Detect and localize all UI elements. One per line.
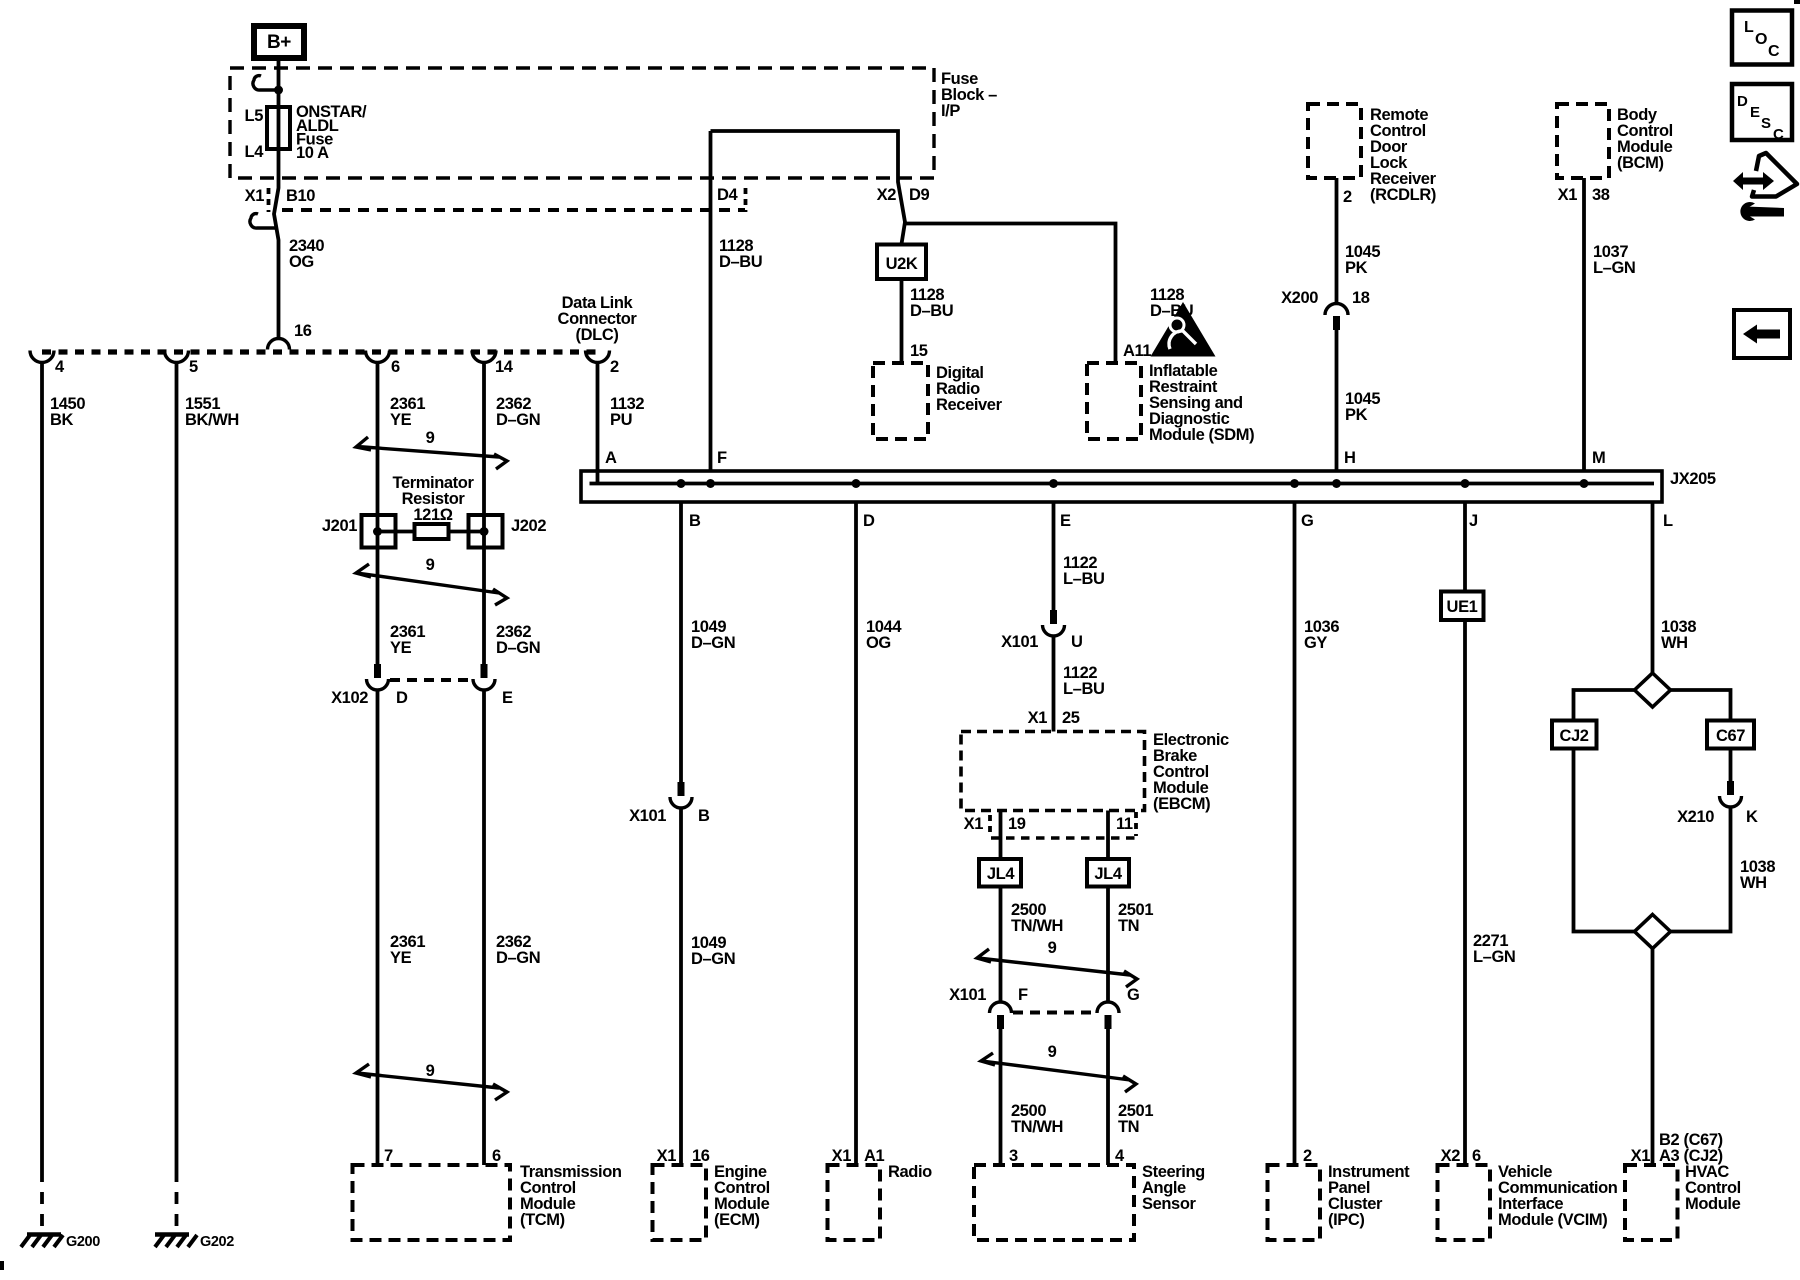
wire label 2501 TN (lower) xyxy=(1118,1102,1153,1136)
svg-text:CJ2: CJ2 xyxy=(1559,727,1588,745)
svg-text:G202: G202 xyxy=(200,1234,234,1250)
junction node at fuse feed xyxy=(274,86,283,95)
label Data Link Connector (DLC) xyxy=(558,294,638,344)
wire label 1049 D-GN (upper) xyxy=(691,618,735,652)
svg-text:16: 16 xyxy=(692,1147,710,1165)
option box CJ2 xyxy=(1552,721,1597,749)
SDM dashed box xyxy=(1087,363,1141,439)
connector X1 dashed boundary of EBCM xyxy=(991,836,1136,840)
svg-text:3: 3 xyxy=(1009,1147,1018,1165)
wire bus J to UE1 xyxy=(1463,502,1467,592)
wire label 2361 YE (lower) xyxy=(390,933,425,967)
junction node E xyxy=(1049,479,1058,488)
wire splitter to CJ2 xyxy=(1574,690,1635,721)
svg-text:J201: J201 xyxy=(322,517,357,535)
wire label 2271 L-GN xyxy=(1473,932,1515,966)
svg-text:TN/WH: TN/WH xyxy=(1011,917,1063,935)
wire 1045 PK from RCDLR to X200 xyxy=(1335,178,1339,304)
svg-text:F: F xyxy=(1018,986,1028,1004)
svg-text:D–BU: D–BU xyxy=(1150,302,1193,320)
IPC dashed box xyxy=(1268,1165,1321,1240)
svg-text:D–GN: D–GN xyxy=(691,634,735,652)
svg-text:X101: X101 xyxy=(949,986,986,1004)
svg-text:Sensor: Sensor xyxy=(1142,1195,1197,1213)
svg-text:(BCM): (BCM) xyxy=(1617,154,1664,172)
svg-text:16: 16 xyxy=(294,322,312,340)
DLC pin 5 cup xyxy=(165,351,189,363)
svg-text:YE: YE xyxy=(390,639,412,657)
wire 1045 PK from X200 to bus H xyxy=(1335,330,1339,471)
wire label 1037 L-GN xyxy=(1593,243,1635,277)
svg-text:C: C xyxy=(1773,126,1784,143)
wire label 2362 D-GN (middle) xyxy=(496,623,540,657)
twisted pair symbol 9 (above TCM) xyxy=(356,1062,507,1100)
connector X1 pins B2/A3 labels xyxy=(1631,1131,1723,1165)
junction node G xyxy=(1290,479,1299,488)
wire label 1044 OG xyxy=(866,618,902,652)
svg-text:J: J xyxy=(1469,512,1478,530)
svg-text:5: 5 xyxy=(189,358,198,376)
svg-text:(ECM): (ECM) xyxy=(714,1211,760,1229)
svg-text:D–BU: D–BU xyxy=(719,253,762,271)
twisted pair symbol 9 (above X101) xyxy=(977,939,1137,987)
svg-text:GY: GY xyxy=(1304,634,1327,652)
wire 2361 YE X102 to TCM pin7 xyxy=(376,690,380,1165)
wire 2501 TN X101 to SAS pin4 xyxy=(1106,1029,1110,1165)
wire label 2501 TN (upper) xyxy=(1118,901,1153,935)
svg-text:6: 6 xyxy=(391,358,400,376)
junction node F xyxy=(706,479,715,488)
option box JL4 (right) xyxy=(1087,859,1129,887)
junction node J xyxy=(1461,479,1470,488)
svg-text:YE: YE xyxy=(390,949,412,967)
svg-text:4: 4 xyxy=(1115,1147,1125,1165)
svg-text:G: G xyxy=(1127,986,1139,1004)
svg-text:U: U xyxy=(1071,633,1083,651)
connector X1 dashed boundary line xyxy=(282,208,745,212)
wire label 1122 L-BU (upper) xyxy=(1063,554,1105,588)
wire 2500 TN/WH JL4 to X101 F xyxy=(999,887,1003,1003)
svg-text:18: 18 xyxy=(1352,289,1370,307)
svg-text:J202: J202 xyxy=(511,517,546,535)
svg-text:X1: X1 xyxy=(245,187,265,205)
label Electronic Brake Control Module (EBCM) xyxy=(1153,731,1229,813)
svg-text:OG: OG xyxy=(289,253,314,271)
wire 2271 L-GN UE1 to VCIM xyxy=(1463,620,1467,1165)
label Inflatable Restraint Sensing and Diagnostic Module (SDM) xyxy=(1149,362,1254,444)
wire splitter to HVAC xyxy=(1651,949,1655,1166)
svg-text:X1: X1 xyxy=(1631,1147,1651,1165)
svg-text:Module: Module xyxy=(1685,1195,1741,1213)
TCM dashed box xyxy=(353,1165,511,1240)
svg-text:D: D xyxy=(863,512,875,530)
svg-text:B: B xyxy=(689,512,701,530)
wire label 2361 YE (upper) xyxy=(390,395,425,429)
svg-text:D–GN: D–GN xyxy=(496,411,540,429)
svg-text:38: 38 xyxy=(1592,186,1610,204)
svg-text:7: 7 xyxy=(384,1147,393,1165)
svg-text:G: G xyxy=(1301,512,1313,530)
label Vehicle Communication Interface Module (VCIM) xyxy=(1498,1163,1618,1229)
radio dashed box xyxy=(828,1165,881,1240)
svg-text:K: K xyxy=(1746,808,1758,826)
svg-text:L: L xyxy=(1663,512,1673,530)
DLC pin 16 dome xyxy=(268,339,290,350)
svg-text:2: 2 xyxy=(1303,1147,1312,1165)
connector X1 pin A1 labels xyxy=(832,1147,885,1165)
wire label 1038 WH (upper) xyxy=(1661,618,1696,652)
svg-text:X101: X101 xyxy=(629,807,666,825)
wire 1036 GY bus G to IPC xyxy=(1293,502,1297,1165)
wire 1044 OG bus D to radio xyxy=(854,502,858,1165)
in-line connector X101 cavity U xyxy=(1001,610,1082,651)
ground G202 xyxy=(155,1234,234,1250)
wire 2500 TN/WH X101 to SAS pin3 xyxy=(999,1029,1003,1165)
svg-text:JL4: JL4 xyxy=(1094,865,1122,883)
junction node D xyxy=(852,479,861,488)
wire 1551 BK/WH pin5 to G202 xyxy=(175,361,179,1170)
svg-text:PU: PU xyxy=(610,411,632,429)
svg-text:TN: TN xyxy=(1118,1118,1139,1136)
svg-text:15: 15 xyxy=(910,342,928,360)
svg-text:X2: X2 xyxy=(877,186,897,204)
splice pack J202 xyxy=(469,515,547,548)
in-line connector X102 cavity D xyxy=(367,664,389,690)
svg-text:(IPC): (IPC) xyxy=(1328,1211,1365,1229)
svg-text:WH: WH xyxy=(1740,874,1767,892)
splice pack J201 xyxy=(322,515,396,548)
option box C67 xyxy=(1707,721,1754,749)
svg-text:9: 9 xyxy=(426,556,435,574)
connector X102 dashed line xyxy=(390,678,472,682)
steering angle sensor dashed box xyxy=(974,1165,1134,1240)
svg-text:6: 6 xyxy=(1472,1147,1481,1165)
twisted pair symbol 9 (upper) xyxy=(356,429,507,469)
svg-text:9: 9 xyxy=(1048,939,1057,957)
service info double-arrow and wrench icon xyxy=(1733,153,1797,221)
RCDLR dashed box xyxy=(1308,104,1361,178)
svg-text:X1: X1 xyxy=(1558,186,1578,204)
VCIM dashed box xyxy=(1438,1165,1491,1240)
svg-text:TN: TN xyxy=(1118,917,1139,935)
wire label 2500 TN/WH (lower) xyxy=(1011,1102,1063,1136)
svg-text:X210: X210 xyxy=(1677,808,1714,826)
svg-text:JL4: JL4 xyxy=(987,865,1015,883)
wire 2500 EBCM pin19 to JL4 xyxy=(999,811,1003,860)
svg-text:L–BU: L–BU xyxy=(1063,570,1105,588)
back navigation arrow box xyxy=(1734,310,1790,358)
svg-text:A11: A11 xyxy=(1123,342,1151,360)
wire 1122 L-BU X101 to EBCM pin 25 xyxy=(1052,636,1056,732)
svg-text:M: M xyxy=(1592,449,1605,467)
svg-text:B10: B10 xyxy=(286,187,315,205)
wire 2501 EBCM pin11 to JL4 xyxy=(1106,811,1110,860)
DLC pin 6 cup xyxy=(366,351,390,363)
wire 1132 PU pin2 to bus A xyxy=(596,361,600,483)
svg-text:X101: X101 xyxy=(1001,633,1038,651)
connector X2 pin 6 labels xyxy=(1441,1147,1481,1165)
svg-text:B+: B+ xyxy=(267,32,291,53)
svg-text:Radio: Radio xyxy=(888,1163,932,1181)
DESC legend box xyxy=(1732,84,1792,143)
svg-text:C: C xyxy=(1768,43,1780,60)
in-line connector X210 cavity K xyxy=(1677,781,1758,826)
svg-text:O: O xyxy=(1755,31,1767,48)
wire 1128 D-BU from fuse block to splice branch xyxy=(711,131,906,224)
DLC pin 14 cup xyxy=(472,351,496,363)
LOC legend box xyxy=(1732,11,1792,65)
svg-text:F: F xyxy=(717,449,727,467)
svg-text:X1: X1 xyxy=(964,815,984,833)
in-line connector X101 cavity G xyxy=(1097,986,1139,1029)
connector D4 label xyxy=(717,186,746,212)
wire label 2362 D-GN (lower) xyxy=(496,933,540,967)
svg-text:X2: X2 xyxy=(1441,1147,1461,1165)
wire label 1128 D-BU (middle) xyxy=(910,286,953,320)
label Fuse Block I/P xyxy=(941,70,997,120)
terminator resistor R xyxy=(378,524,485,539)
wire label 2362 D-GN (upper) xyxy=(496,395,540,429)
label Transmission Control Module (TCM) xyxy=(520,1163,622,1229)
svg-text:A1: A1 xyxy=(864,1147,885,1165)
svg-text:(EBCM): (EBCM) xyxy=(1153,795,1210,813)
svg-text:(TCM): (TCM) xyxy=(520,1211,565,1229)
BCM dashed box xyxy=(1557,104,1609,178)
svg-text:UE1: UE1 xyxy=(1447,598,1478,616)
svg-text:G200: G200 xyxy=(66,1234,100,1250)
svg-text:BK/WH: BK/WH xyxy=(185,411,239,429)
svg-text:X1: X1 xyxy=(832,1147,852,1165)
DLC pin 4 cup xyxy=(30,351,54,363)
connector X1 label row xyxy=(245,187,316,212)
wire label 1450 BK xyxy=(50,395,85,429)
wire CJ2 to splitter (bottom-left) xyxy=(1574,749,1635,932)
connector X1 pin 38 labels xyxy=(1558,186,1610,204)
svg-text:L–GN: L–GN xyxy=(1593,259,1635,277)
wire 1037 L-GN from BCM to bus M xyxy=(1582,178,1586,471)
svg-text:D4: D4 xyxy=(717,186,739,204)
svg-text:D–GN: D–GN xyxy=(691,950,735,968)
svg-text:D9: D9 xyxy=(909,186,930,204)
label HVAC Control Module xyxy=(1685,1163,1741,1213)
svg-text:2: 2 xyxy=(610,358,619,376)
ECM dashed box xyxy=(653,1165,707,1240)
wire label 2500 TN/WH (upper) xyxy=(1011,901,1063,935)
option box U2K xyxy=(877,245,926,280)
wire label 1049 D-GN (lower) xyxy=(691,934,735,968)
svg-text:(DLC): (DLC) xyxy=(576,326,619,344)
svg-text:2: 2 xyxy=(1343,188,1352,206)
label Remote Control Door Lock Receiver (RCDLR) xyxy=(1370,106,1437,204)
wire 1038 WH bus L to splitter xyxy=(1651,502,1655,673)
wire 1122 L-BU bus E to X101 U xyxy=(1052,502,1056,610)
wire 1038 WH X210 to splitter (bottom-right) xyxy=(1671,807,1731,932)
option box UE1 xyxy=(1441,592,1484,621)
svg-text:B: B xyxy=(698,807,710,825)
svg-text:25: 25 xyxy=(1062,709,1080,727)
fuse ONSTAR/ALDL 10A xyxy=(267,107,290,149)
svg-text:S: S xyxy=(1761,115,1771,132)
connector X1 pins 19 and 11 labels xyxy=(964,812,1136,836)
svg-text:L4: L4 xyxy=(245,143,265,161)
wire label 1128 D-BU (left) xyxy=(719,237,762,271)
label Steering Angle Sensor xyxy=(1142,1163,1205,1213)
svg-text:9: 9 xyxy=(1048,1043,1057,1061)
svg-text:4: 4 xyxy=(55,358,65,376)
svg-text:L5: L5 xyxy=(245,107,264,125)
wire label 1038 WH (lower) xyxy=(1740,858,1775,892)
junction node B xyxy=(677,479,686,488)
svg-text:D: D xyxy=(396,689,408,707)
svg-text:10 A: 10 A xyxy=(296,144,329,162)
svg-text:9: 9 xyxy=(426,1062,435,1080)
svg-text:JX205: JX205 xyxy=(1670,470,1716,488)
wire 1049 D-GN X101 to ECM xyxy=(679,808,683,1165)
wire label 1045 PK (upper) xyxy=(1345,243,1380,277)
in-line connector X200 pin 18 xyxy=(1281,289,1370,330)
svg-text:11: 11 xyxy=(1116,815,1133,833)
wire U2K to digital radio receiver pin 15 xyxy=(900,279,904,363)
in-line connector X101 cavity F xyxy=(949,986,1028,1029)
svg-text:Receiver: Receiver xyxy=(936,396,1003,414)
svg-text:14: 14 xyxy=(495,358,514,376)
battery feed B+ symbol xyxy=(251,23,307,61)
svg-text:E: E xyxy=(502,689,513,707)
svg-text:X1: X1 xyxy=(1028,709,1048,727)
svg-text:PK: PK xyxy=(1345,259,1368,277)
EBCM dashed box xyxy=(961,732,1145,811)
splice block JX205 xyxy=(581,470,1716,502)
svg-text:L–GN: L–GN xyxy=(1473,948,1515,966)
svg-text:E: E xyxy=(1060,512,1071,530)
svg-text:19: 19 xyxy=(1008,815,1026,833)
label Digital Radio Receiver xyxy=(936,364,1003,414)
option box JL4 (left) xyxy=(979,859,1021,887)
svg-text:D: D xyxy=(1737,93,1748,110)
svg-text:9: 9 xyxy=(426,429,435,447)
junction node H xyxy=(1332,479,1341,488)
wire label 2340 OG xyxy=(289,237,324,271)
connector X101 dashed line xyxy=(1013,1011,1096,1015)
svg-text:YE: YE xyxy=(390,411,412,429)
svg-text:E: E xyxy=(1750,104,1760,121)
svg-text:D–GN: D–GN xyxy=(496,949,540,967)
wire 2361 YE pin6 to X102 D xyxy=(376,361,380,664)
svg-text:Module (SDM): Module (SDM) xyxy=(1149,426,1254,444)
hook tap symbol below X1 B10 xyxy=(250,214,276,228)
wire label 1132 PU xyxy=(610,395,644,429)
twisted pair symbol 9 (second) xyxy=(356,556,507,605)
svg-text:(RCDLR): (RCDLR) xyxy=(1370,186,1436,204)
splitter diamond (bottom) xyxy=(1635,915,1671,949)
wire label 1036 GY xyxy=(1304,618,1339,652)
wire 2501 TN JL4 to X101 G xyxy=(1106,887,1110,1003)
connector X1 pin 25 labels xyxy=(1028,709,1080,727)
twisted pair symbol 9 (below X101) xyxy=(981,1043,1136,1092)
junction node M xyxy=(1580,479,1589,488)
svg-text:TN/WH: TN/WH xyxy=(1011,1118,1063,1136)
label Engine Control Module (ECM) xyxy=(714,1163,770,1229)
svg-text:H: H xyxy=(1344,449,1356,467)
svg-text:I/P: I/P xyxy=(941,102,960,120)
svg-text:X200: X200 xyxy=(1281,289,1318,307)
SIR warning triangle icon xyxy=(1151,302,1216,357)
digital radio receiver dashed box xyxy=(873,363,928,439)
wire label 2361 YE (middle) xyxy=(390,623,425,657)
hook tap symbol inside fuse block xyxy=(253,76,279,90)
svg-text:A: A xyxy=(605,449,617,467)
in-line connector X102 cavity E xyxy=(473,664,495,690)
svg-text:OG: OG xyxy=(866,634,891,652)
wire from D9 to U2K and radio receiver xyxy=(902,222,906,244)
wire B+ feed down to DLC pin 16 xyxy=(274,61,279,338)
svg-text:U2K: U2K xyxy=(886,255,918,273)
wire splitter to C67 xyxy=(1671,690,1731,721)
svg-text:PK: PK xyxy=(1345,406,1368,424)
svg-text:D–GN: D–GN xyxy=(496,639,540,657)
svg-text:WH: WH xyxy=(1661,634,1688,652)
svg-text:Module (VCIM): Module (VCIM) xyxy=(1498,1211,1607,1229)
svg-text:BK: BK xyxy=(50,411,74,429)
wire 2362 D-GN pin14 to X102 E xyxy=(482,361,486,664)
wire C67 to X210 xyxy=(1729,749,1733,782)
splitter diamond (top) xyxy=(1635,673,1671,707)
svg-text:L–BU: L–BU xyxy=(1063,680,1105,698)
wire label 1045 PK (lower) xyxy=(1345,390,1380,424)
svg-text:X1: X1 xyxy=(657,1147,677,1165)
svg-text:121Ω: 121Ω xyxy=(413,506,452,524)
fuse block I/P dashed box xyxy=(230,68,934,178)
DLC pin 2 cup xyxy=(586,351,610,363)
in-line connector X101 cavity B xyxy=(629,782,710,825)
wire 2362 D-GN X102 to TCM pin6 xyxy=(482,690,486,1165)
label Body Control Module (BCM) xyxy=(1617,106,1673,172)
HVAC control module dashed box xyxy=(1625,1165,1678,1240)
ground G200 xyxy=(21,1234,100,1250)
DLC connector dashed line xyxy=(42,349,598,354)
wire label 1551 BK/WH xyxy=(185,395,239,429)
wire 1128 D-BU branch to SDM pin A11 xyxy=(905,224,1116,364)
wire 1049 D-GN bus B to X101 B xyxy=(679,502,683,782)
connector X1 pin 16 labels xyxy=(657,1147,710,1165)
label Terminator Resistor 121 ohm xyxy=(393,474,475,524)
connector X2 D9 labels xyxy=(877,186,930,204)
label Instrument Panel Cluster (IPC) xyxy=(1328,1163,1410,1229)
svg-text:L: L xyxy=(1744,19,1754,36)
svg-text:D–BU: D–BU xyxy=(910,302,953,320)
wire label 1128 D-BU (right) xyxy=(1150,286,1193,320)
wire 1128 D-BU down to bus F xyxy=(709,131,713,471)
wire label 1122 L-BU (lower) xyxy=(1063,664,1105,698)
scan artifact bottom-left xyxy=(0,1261,4,1270)
scan artifact top-right xyxy=(1794,0,1800,4)
svg-text:6: 6 xyxy=(492,1147,501,1165)
svg-text:X102: X102 xyxy=(331,689,368,707)
svg-text:C67: C67 xyxy=(1716,727,1745,745)
wire 1450 BK pin4 to G200 xyxy=(40,361,44,1170)
value label ONSTAR/ALDL Fuse 10 A xyxy=(296,103,367,162)
